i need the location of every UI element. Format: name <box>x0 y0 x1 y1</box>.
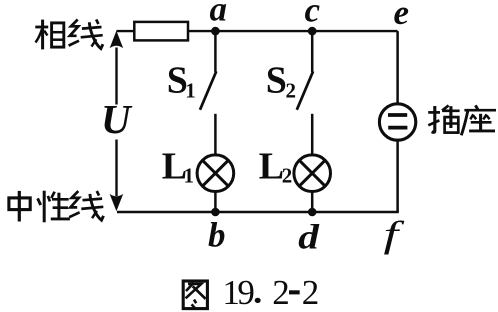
fuse F1 (box) <box>134 22 188 41</box>
svg-text:2: 2 <box>286 79 297 103</box>
wire bottom (neutral) <box>117 211 399 213</box>
label 中 of 中性线 <box>9 191 30 222</box>
label 相线 (live wire) <box>35 20 64 50</box>
switch S2 <box>297 31 313 154</box>
svg-text:d: d <box>298 218 320 256</box>
switch S1 <box>200 31 216 154</box>
node c <box>308 27 317 36</box>
svg-text:2: 2 <box>302 273 320 312</box>
svg-text:2: 2 <box>272 273 290 312</box>
svg-text:U: U <box>101 96 133 142</box>
label 插 of 插座 <box>428 105 459 132</box>
svg-text:9: 9 <box>237 273 255 312</box>
node a <box>211 27 220 36</box>
svg-text:c: c <box>305 0 321 30</box>
node b <box>211 208 220 217</box>
caption 图 <box>183 281 207 309</box>
voltage arrow U (double headed) <box>110 31 124 212</box>
socket J1 <box>379 104 415 140</box>
svg-text:e: e <box>394 0 410 32</box>
label 座 of 插座 <box>461 105 496 135</box>
wire right vertical lower (socket to f corner) <box>396 141 399 212</box>
svg-text:1: 1 <box>184 164 195 188</box>
wire right vertical upper (e corner to socket) <box>396 31 399 103</box>
svg-text:1: 1 <box>185 79 196 103</box>
node d <box>308 208 317 217</box>
lamp L1 <box>197 155 234 212</box>
svg-text:2: 2 <box>282 164 293 188</box>
wire top-left (U arrow to fuse) <box>117 30 135 32</box>
label 线 of 相线 <box>69 19 103 48</box>
label 性 of 中性线 <box>38 191 70 223</box>
label 线 of 中性线 <box>69 191 103 220</box>
wire top (fuse to corner e) <box>188 30 398 32</box>
svg-text:f: f <box>384 214 405 255</box>
svg-text:S: S <box>266 60 287 102</box>
svg-text:L: L <box>259 145 284 187</box>
svg-text:b: b <box>208 216 226 255</box>
svg-text:a: a <box>210 0 228 29</box>
lamp L2 <box>294 155 331 212</box>
